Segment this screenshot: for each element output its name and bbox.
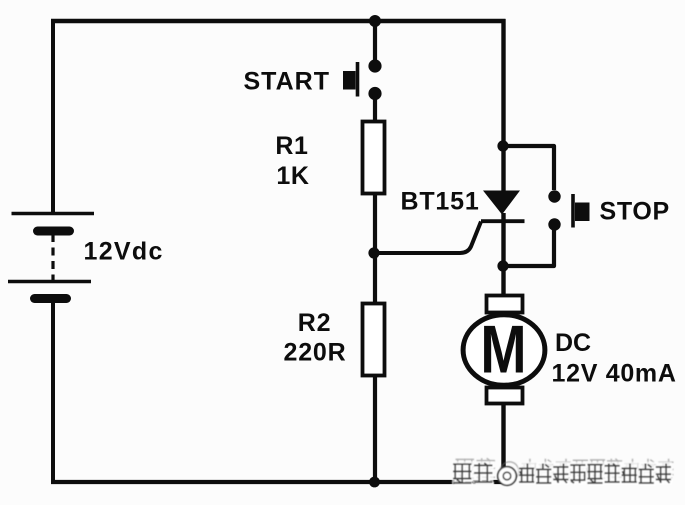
wire bottom rail	[51, 480, 506, 484]
svg-text:1K: 1K	[276, 162, 309, 190]
svg-text:12Vdc: 12Vdc	[84, 238, 164, 266]
label 12Vdc	[84, 238, 164, 266]
node top junction	[369, 15, 381, 27]
node cathode junction	[497, 260, 508, 271]
svg-text:DC: DC	[555, 329, 591, 357]
wire START to R1	[373, 94, 377, 122]
node anode junction	[497, 140, 508, 151]
wire STOP branch upper	[504, 146, 554, 190]
wire motor to bottom rail	[501, 403, 505, 484]
wire anode junction to SCR	[501, 146, 505, 192]
resistor R1	[363, 122, 385, 194]
battery 12Vdc	[8, 214, 94, 304]
label R2 220R	[284, 309, 347, 367]
pushbutton START	[343, 59, 382, 100]
wire left rail upper	[51, 19, 55, 212]
wire cathode junction to motor	[501, 266, 505, 300]
label DC 12V 40mA	[552, 329, 677, 388]
wire R1 to gate node	[373, 194, 377, 254]
svg-text:220R: 220R	[284, 339, 347, 367]
wire top rail	[51, 19, 506, 23]
wire gate	[375, 222, 481, 254]
wire gate junction to R2	[373, 253, 377, 304]
svg-text:12V 40mA: 12V 40mA	[552, 360, 677, 388]
pushbutton STOP	[548, 190, 589, 230]
label START	[244, 68, 330, 96]
wire right rail	[501, 19, 505, 146]
svg-text:START: START	[244, 68, 330, 96]
wire top junction to START	[373, 21, 377, 62]
wire STOP branch lower	[504, 230, 554, 266]
node bottom junction	[369, 477, 380, 488]
wire left rail lower	[51, 303, 55, 484]
node gate junction	[368, 247, 379, 258]
watermark zhihu	[452, 458, 674, 485]
svg-text:R2: R2	[298, 309, 332, 337]
svg-text:M: M	[480, 312, 526, 387]
motor M	[463, 296, 545, 404]
wire R2 to bottom rail	[373, 375, 377, 482]
label R1 1K	[275, 132, 309, 190]
svg-text:BT151: BT151	[401, 188, 480, 216]
label BT151	[401, 188, 480, 216]
label STOP	[600, 198, 670, 226]
svg-text:STOP: STOP	[600, 198, 670, 226]
resistor R2	[363, 304, 385, 376]
svg-text:R1: R1	[275, 132, 308, 160]
thyristor BT151	[481, 191, 525, 267]
